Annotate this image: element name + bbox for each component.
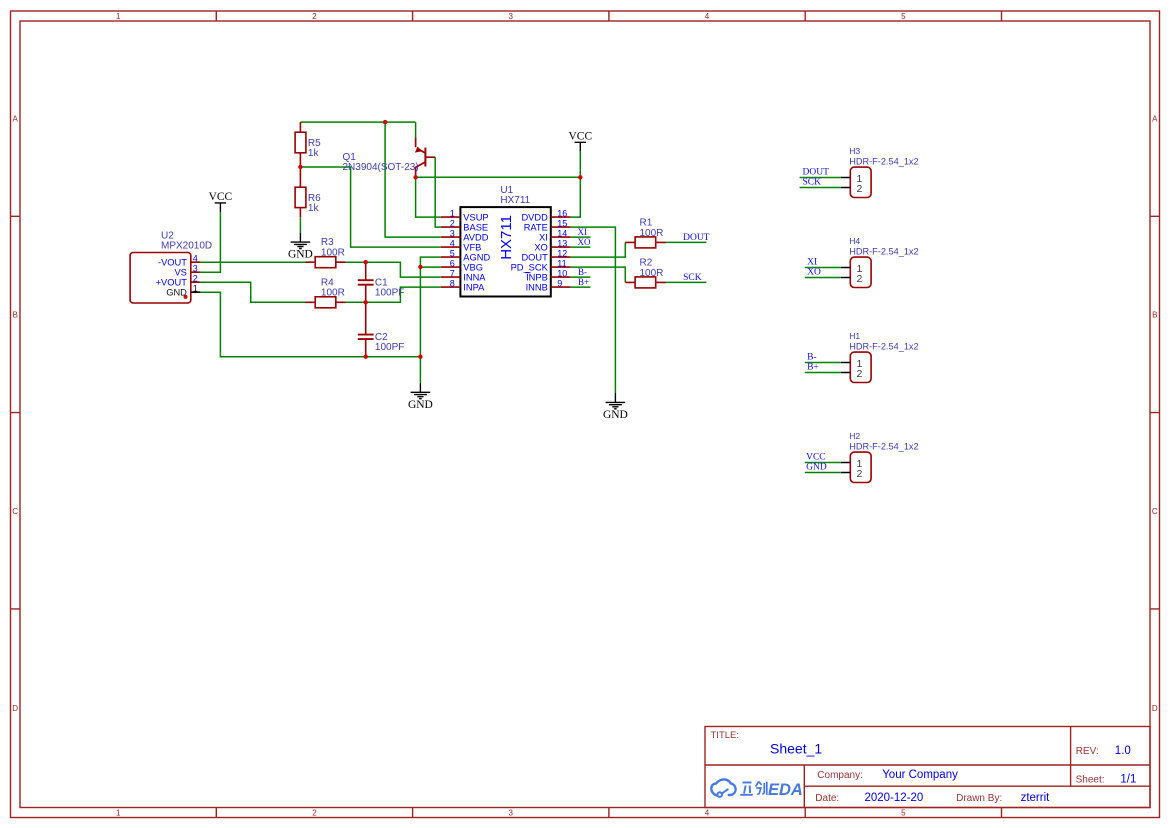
connector H1 body (850, 352, 871, 382)
svg-text:XO: XO (807, 268, 821, 278)
svg-text:4: 4 (193, 253, 198, 263)
wire XI pin14 stub (571, 236, 591, 238)
svg-text:A: A (13, 115, 19, 124)
svg-text:1: 1 (116, 12, 121, 21)
svg-text:C: C (12, 507, 18, 516)
svg-text:4: 4 (705, 808, 710, 817)
svg-text:DOUT: DOUT (803, 167, 830, 177)
svg-text:XO: XO (578, 237, 591, 247)
svg-text:2N3904(SOT-23): 2N3904(SOT-23) (343, 162, 419, 173)
svg-text:3: 3 (508, 808, 513, 817)
frame column numbers bottom (116, 808, 906, 817)
svg-text:REV:: REV: (1076, 746, 1099, 757)
svg-text:HX711: HX711 (500, 195, 530, 206)
H3 pin numbers (857, 173, 863, 195)
capacitor C2 (358, 302, 374, 356)
svg-text:2: 2 (312, 12, 317, 21)
H1 pin stubs (841, 363, 850, 373)
wire H2 pin1 (805, 462, 841, 464)
wire VFB net: R5/R6 node to U1 pin4 (300, 167, 440, 247)
U1 right pin names (511, 213, 549, 293)
svg-text:XO: XO (534, 243, 547, 253)
svg-text:B: B (13, 311, 18, 320)
svg-text:H3: H3 (849, 146, 860, 156)
node R3/C1/INNA (364, 260, 368, 264)
component U2 MPX2010D body (130, 253, 191, 304)
wire R1 to DOUT label (666, 241, 707, 243)
svg-text:2: 2 (450, 218, 455, 228)
svg-text:GND: GND (288, 249, 313, 261)
svg-text:100R: 100R (321, 288, 345, 299)
frame column numbers top (116, 12, 906, 21)
svg-text:GND: GND (408, 399, 433, 411)
power flag VCC at DVDD (575, 142, 586, 151)
svg-text:3: 3 (450, 228, 455, 238)
svg-text:4: 4 (450, 238, 455, 248)
H2 pin stubs (841, 463, 850, 473)
node Q1 emitter junction (413, 175, 417, 179)
svg-text:D: D (1152, 704, 1158, 713)
op-amp U1 HX711 body (460, 207, 550, 296)
U1 right pin numbers (557, 208, 567, 288)
wire U2 GND pin1 to ground net (200, 292, 420, 357)
frame bottom ticks (216, 808, 1001, 818)
svg-text:2: 2 (312, 808, 317, 817)
U1 right pin stubs 16-9 (551, 217, 571, 287)
H4 pin numbers (857, 263, 863, 285)
svg-text:INPA: INPA (463, 283, 485, 293)
svg-text:C: C (1152, 507, 1158, 516)
svg-text:AGND: AGND (463, 253, 490, 263)
node junction top net (383, 120, 387, 124)
ground symbol below U1 left (411, 383, 431, 399)
svg-text:Sheet_1: Sheet_1 (770, 740, 822, 756)
svg-text:12: 12 (557, 248, 567, 258)
svg-text:13: 13 (557, 238, 567, 248)
U1 left pin names (463, 213, 490, 293)
wire H1 pin1 (805, 362, 841, 364)
wire H4 pin1 (805, 267, 841, 269)
svg-text:Sheet:: Sheet: (1076, 774, 1105, 785)
svg-text:9: 9 (557, 278, 562, 288)
svg-text:+VOUT: +VOUT (156, 278, 188, 288)
svg-text:VCC: VCC (209, 191, 233, 203)
wire +VOUT pin2 to R4 (200, 282, 305, 302)
svg-text:5: 5 (450, 248, 455, 258)
svg-text:INNB: INNB (526, 283, 548, 293)
wire ground node down to GND symbol (419, 357, 421, 383)
frame row letters right (1152, 115, 1158, 714)
svg-text:1.0: 1.0 (1115, 745, 1131, 757)
wire RATE pin15 to ground (571, 227, 616, 393)
svg-text:XI: XI (578, 227, 588, 237)
svg-text:HDR-F-2.54_1x2: HDR-F-2.54_1x2 (849, 341, 918, 351)
resistor R6 (295, 167, 306, 217)
svg-text:H4: H4 (849, 236, 860, 246)
svg-text:INNA: INNA (463, 273, 486, 283)
wire H3 pin1 (800, 177, 841, 179)
transistor Q1 (415, 138, 435, 178)
resistor R2 (625, 277, 665, 288)
wire H3 pin2 (800, 187, 841, 189)
svg-text:100R: 100R (640, 268, 664, 279)
connector H2 body (850, 452, 871, 482)
wire H2 pin2 (805, 472, 841, 474)
EasyEDA logo 立 character (740, 783, 753, 795)
svg-text:H2: H2 (849, 431, 860, 441)
H1 pin numbers (857, 358, 863, 380)
wire R6 to ground (299, 217, 301, 232)
resistor R3 (306, 257, 346, 268)
U2 pin stub 1 (black) (191, 291, 201, 293)
svg-text:DOUT: DOUT (683, 233, 710, 243)
svg-text:15: 15 (557, 218, 567, 228)
wire VS pin3 to VCC (200, 212, 220, 272)
title block outline (705, 727, 1150, 808)
node VBG junction (418, 265, 422, 269)
svg-text:RATE: RATE (524, 223, 548, 233)
wire R2 to SCK label (666, 281, 707, 283)
svg-text:2: 2 (857, 468, 863, 480)
svg-text:11: 11 (557, 258, 566, 268)
svg-text:H1: H1 (849, 331, 860, 341)
svg-text:3: 3 (508, 12, 513, 21)
svg-text:100PF: 100PF (375, 342, 404, 353)
svg-text:Company:: Company: (817, 770, 863, 781)
svg-text:EDA: EDA (768, 781, 803, 799)
svg-text:XI: XI (807, 257, 817, 267)
wire PD_SCK pin11 to R2 (571, 267, 626, 282)
U2 pin stubs 4,3,2 (191, 262, 201, 282)
svg-text:GND: GND (603, 409, 628, 421)
frame right ticks (1150, 216, 1160, 609)
svg-text:D: D (12, 704, 18, 713)
wire ground node up to AGND pin5 (420, 257, 440, 357)
node C2 bottom (364, 355, 368, 359)
svg-text:14: 14 (557, 228, 567, 238)
node junction R5/R6/VFB (298, 165, 302, 169)
wire AVDD branch from top net to U1 pin3 (385, 122, 441, 237)
svg-text:5: 5 (901, 12, 906, 21)
svg-text:SCK: SCK (683, 273, 702, 283)
U1 left pin numbers (450, 208, 455, 288)
U2 pin1 dot decoration (184, 295, 188, 299)
wire Q1 emitter node to VCC node (416, 176, 581, 178)
svg-text:10: 10 (557, 268, 567, 278)
svg-text:2: 2 (857, 368, 863, 380)
svg-text:B+: B+ (807, 363, 819, 373)
svg-text:HDR-F-2.54_1x2: HDR-F-2.54_1x2 (849, 156, 918, 166)
svg-text:XI: XI (539, 233, 548, 243)
wire VCC down to DVDD pin16 (571, 151, 581, 217)
wire BASE: Q1 collector to U1 pin2 (435, 157, 441, 227)
power flag VCC near U2 (215, 203, 226, 212)
svg-text:1: 1 (450, 208, 455, 218)
wire XO pin13 stub (571, 246, 591, 248)
svg-text:8: 8 (450, 278, 455, 288)
svg-text:VFB: VFB (463, 243, 481, 253)
svg-text:DVDD: DVDD (521, 213, 548, 223)
frame top ticks (216, 11, 1001, 21)
H2 pin numbers (857, 458, 863, 480)
svg-text:2: 2 (857, 273, 863, 285)
svg-text:3: 3 (193, 263, 198, 273)
capacitor C1 (358, 262, 374, 302)
wire VBG pin6 to vertical (420, 266, 440, 268)
node R4/C1/C2/INPA (364, 300, 368, 304)
wire H1 pin2 (805, 372, 841, 374)
U2 pin numbers (193, 253, 198, 293)
connector H3 body (850, 167, 871, 197)
svg-text:A: A (1152, 115, 1158, 124)
wire net VCC top: R5 top to Q1 emitter (300, 122, 415, 138)
EasyEDA logo 创 character (756, 782, 767, 795)
node VCC junction (578, 175, 582, 179)
svg-text:Date:: Date: (815, 793, 839, 804)
svg-text:7: 7 (450, 268, 455, 278)
wire DOUT pin12 to R1 (571, 242, 626, 257)
svg-text:1k: 1k (308, 148, 320, 159)
resistor R1 (625, 237, 665, 248)
svg-text:GND: GND (806, 463, 827, 473)
svg-text:100R: 100R (640, 228, 664, 239)
node ground net corner (418, 355, 422, 359)
svg-text:1: 1 (116, 808, 121, 817)
svg-text:TITLE:: TITLE: (711, 730, 740, 741)
svg-text:100R: 100R (321, 247, 345, 258)
wire INNB pin9 stub (571, 286, 591, 288)
wire R3 to node (346, 261, 366, 263)
svg-text:100PF: 100PF (375, 287, 404, 298)
svg-text:-VOUT: -VOUT (158, 258, 187, 268)
resistor R5 (295, 122, 306, 167)
svg-text:Drawn By:: Drawn By: (956, 793, 1002, 804)
wire node to U1 pin7 INNA (366, 262, 441, 277)
svg-text:VS: VS (174, 268, 186, 278)
svg-text:zterrit: zterrit (1021, 792, 1051, 804)
connector H4 body (850, 257, 871, 287)
svg-text:AVDD: AVDD (463, 233, 488, 243)
wire VSUP: node down to U1 pin1 (416, 177, 441, 217)
svg-text:2020-12-20: 2020-12-20 (865, 792, 924, 804)
svg-text:HDR-F-2.54_1x2: HDR-F-2.54_1x2 (849, 246, 918, 256)
svg-text:VCC: VCC (568, 131, 592, 143)
ground symbol RATE (606, 393, 626, 409)
svg-text:INPB: INPB (526, 273, 548, 283)
wire node to U1 pin8 INPA (366, 287, 441, 302)
svg-text:1: 1 (193, 283, 198, 293)
frame left ticks (11, 216, 21, 609)
svg-text:SCK: SCK (803, 178, 822, 188)
H3 pin stubs (841, 178, 850, 188)
svg-text:MPX2010D: MPX2010D (161, 241, 212, 252)
svg-text:Your Company: Your Company (882, 769, 958, 781)
wire R4 to node (346, 301, 366, 303)
svg-text:B-: B- (807, 352, 817, 362)
svg-text:16: 16 (557, 208, 567, 218)
svg-text:4: 4 (705, 12, 710, 21)
svg-text:B+: B+ (578, 277, 589, 287)
H4 pin stubs (841, 268, 850, 278)
wire -VOUT pin4 to R3 (200, 261, 305, 263)
resistor R4 (306, 297, 346, 308)
svg-text:5: 5 (901, 808, 906, 817)
EasyEDA logo cloud (711, 779, 735, 796)
svg-text:PD_SCK: PD_SCK (511, 263, 549, 273)
svg-text:1/1: 1/1 (1120, 773, 1136, 785)
svg-text:DOUT: DOUT (521, 253, 548, 263)
svg-text:B: B (1152, 311, 1157, 320)
wire INPB pin10 stub (571, 276, 591, 278)
svg-text:B-: B- (578, 267, 587, 277)
U2 pin names (156, 258, 188, 298)
svg-text:VCC: VCC (806, 452, 826, 462)
frame row letters left (12, 115, 18, 714)
U1 INPB overline (525, 272, 530, 274)
svg-text:6: 6 (450, 258, 455, 268)
U1 left pin stubs 1-8 (441, 217, 461, 287)
svg-text:1k: 1k (308, 203, 320, 214)
svg-text:2: 2 (857, 183, 863, 195)
svg-text:BASE: BASE (463, 223, 488, 233)
svg-text:VSUP: VSUP (463, 213, 488, 223)
svg-text:VBG: VBG (463, 263, 483, 273)
wire H4 pin2 (805, 277, 841, 279)
svg-text:2: 2 (193, 273, 198, 283)
svg-text:HDR-F-2.54_1x2: HDR-F-2.54_1x2 (849, 441, 918, 451)
ground symbol below R6 (291, 233, 311, 249)
svg-text:HX711: HX711 (498, 215, 515, 260)
